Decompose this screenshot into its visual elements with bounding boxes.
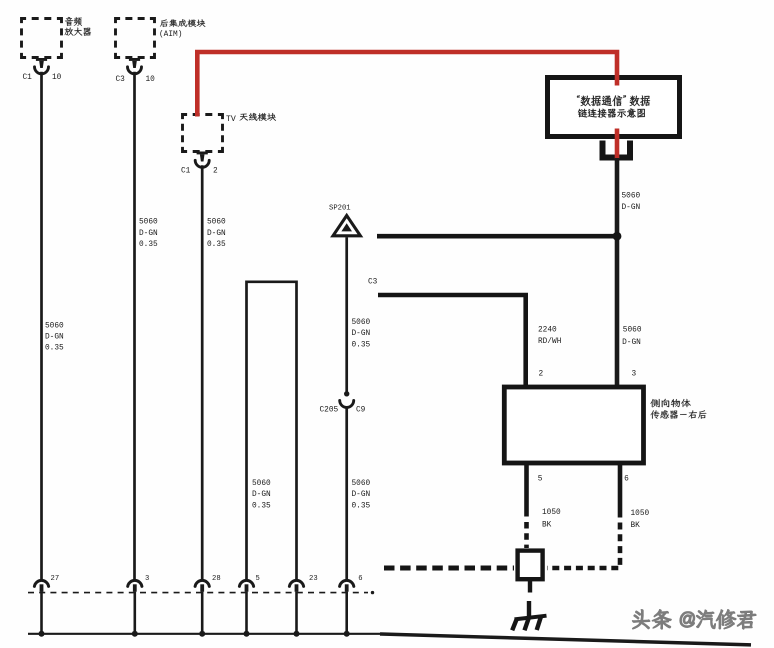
sensor pin 5 wire (524, 463, 529, 517)
svg-text:5060: 5060 (252, 480, 271, 488)
svg-text:BK: BK (542, 521, 552, 529)
wire label 5060 D-GN (below DLC) (622, 193, 641, 213)
svg-text:6: 6 (358, 575, 362, 583)
dashed wire pin 6 to splice block (547, 523, 620, 569)
stub from splice block to ground lead (528, 579, 532, 593)
svg-text:SP201: SP201 (329, 205, 351, 213)
svg-text:TV: TV (226, 115, 236, 124)
wire label 5060 D-GN (above pin 3) (622, 326, 642, 347)
wire label 5060 D-GN 0.35 (TV antenna wire) (207, 219, 226, 249)
svg-text:3: 3 (145, 575, 149, 583)
red wire segment through DLC bottom connector (615, 129, 620, 160)
bottom connector pin 6 (340, 575, 363, 592)
svg-text:D-GN: D-GN (352, 491, 371, 499)
TV antenna module label (226, 113, 276, 124)
wire from SP201 to C205 (345, 237, 348, 392)
svg-text:D-GN: D-GN (252, 491, 271, 499)
svg-text:2: 2 (213, 168, 218, 176)
svg-text:0.35: 0.35 (45, 345, 64, 353)
wire 5060 D-GN from audio amplifier C1-10 (40, 72, 43, 579)
bottom bus rail (28, 633, 380, 635)
splice SP201 symbol (333, 216, 360, 236)
C3 branch label (368, 279, 378, 287)
svg-text:BK: BK (631, 522, 641, 530)
splice block S-connector (518, 551, 543, 580)
pin 3 label (632, 371, 637, 379)
svg-text:RD/WH: RD/WH (538, 338, 562, 346)
svg-text:27: 27 (51, 575, 60, 583)
svg-text:C1: C1 (23, 74, 33, 82)
slanted page edge line (380, 634, 751, 645)
wire below pin 23 (294, 592, 300, 637)
svg-text:10: 10 (146, 76, 156, 84)
svg-text:D-GN: D-GN (622, 204, 641, 212)
svg-text:28: 28 (212, 575, 221, 583)
svg-text:C9: C9 (356, 407, 366, 415)
pin 6 label (624, 476, 629, 484)
red data wire from TV antenna module to DLC box (197, 52, 617, 117)
heavy branch wire to junction (377, 234, 617, 239)
svg-text:(AIM): (AIM) (159, 31, 182, 39)
svg-text:10: 10 (52, 74, 62, 82)
watermark (633, 610, 758, 631)
sensor label (650, 399, 706, 419)
bottom connector pin 3 (128, 575, 150, 592)
bottom connector pin 27 (34, 575, 59, 592)
wire label 5060 D-GN 0.35 (audio amp wire) (45, 322, 64, 352)
svg-text:6: 6 (624, 476, 629, 484)
bottom connector pin 23 (289, 575, 317, 592)
svg-text:5: 5 (256, 575, 260, 583)
AIM label (159, 19, 205, 39)
svg-text:2240: 2240 (538, 326, 557, 334)
svg-text:5060: 5060 (352, 480, 371, 488)
wire label 5060 D-GN 0.35 (AIM wire) (139, 219, 158, 249)
svg-text:3: 3 (632, 371, 637, 379)
looped wire between pins 5 and 23 (247, 282, 297, 579)
svg-text:0.35: 0.35 (207, 241, 226, 249)
TV antenna module dashed box (183, 115, 223, 152)
sensor pin 6 wire (618, 463, 623, 518)
audio amplifier dashed box (22, 19, 62, 58)
svg-text:D-GN: D-GN (45, 334, 64, 342)
heavy dashed wire entering from left (384, 566, 514, 571)
in-line connector C205-C9 (320, 391, 366, 414)
svg-text:5060: 5060 (139, 219, 158, 227)
rear integration module (AIM) dashed box (116, 19, 155, 58)
svg-text:0.35: 0.35 (352, 341, 371, 349)
connector C1-10 of audio amplifier (23, 58, 62, 82)
chassis ground symbol (512, 601, 546, 630)
svg-text:5: 5 (538, 476, 543, 484)
svg-text:2: 2 (539, 371, 544, 379)
heavy wire from DLC to sensor pin 3 (615, 158, 620, 387)
pin 5 label (538, 476, 543, 484)
svg-text:5060: 5060 (45, 322, 64, 330)
connector C1-2 of TV antenna module (181, 152, 218, 176)
wire 5060 D-GN from AIM C3-10 (133, 72, 136, 579)
svg-text:1050: 1050 (631, 510, 650, 518)
wire label 5060 D-GN 0.35 (below C205) (352, 480, 371, 510)
wire below pin 6 (344, 592, 350, 637)
svg-text:C3: C3 (368, 279, 378, 287)
side object sensor right-rear box (504, 387, 643, 463)
wire label 1050 BK (pin 6) (631, 510, 650, 530)
thin dashed harness line (28, 591, 374, 594)
svg-text:D-GN: D-GN (207, 230, 226, 238)
DLC box label (577, 95, 650, 117)
svg-text:5060: 5060 (622, 193, 641, 201)
svg-text:0.35: 0.35 (252, 502, 271, 510)
svg-text:C205: C205 (320, 407, 339, 415)
wire label 5060 D-GN 0.35 (above C205) (352, 319, 371, 349)
svg-text:23: 23 (309, 575, 318, 583)
wire 5060 D-GN from TV antenna module C1-2 (201, 165, 204, 579)
bottom connector pin 5 (239, 575, 259, 592)
svg-text:D-GN: D-GN (352, 330, 371, 338)
audio amplifier label (65, 17, 91, 36)
U-bracket connector below DLC box (603, 141, 631, 158)
wire below pin 27 (39, 592, 45, 637)
svg-text:0.35: 0.35 (139, 241, 158, 249)
heavy wire C3 branch to sensor pin 2 (378, 295, 526, 387)
svg-text:5060: 5060 (623, 326, 642, 334)
bottom connector pin 28 (195, 575, 221, 592)
svg-text:5060: 5060 (352, 319, 371, 327)
wire label 1050 BK (pin 5) (542, 509, 561, 529)
wire below pin 3 (132, 592, 138, 637)
svg-text:D-GN: D-GN (139, 230, 158, 238)
svg-text:1050: 1050 (542, 509, 561, 517)
data link connector diagram box (DLC) (548, 78, 680, 137)
dashed wire pin 5 to splice block (524, 522, 529, 548)
wire below pin 28 (199, 592, 205, 637)
wire below pin 5 (244, 592, 250, 637)
svg-text:C1: C1 (181, 168, 191, 176)
pin 2 label (539, 371, 544, 379)
connector C3-10 of AIM (116, 58, 156, 84)
svg-text:0.35: 0.35 (352, 502, 371, 510)
junction node on DLC wire (613, 232, 622, 241)
svg-text:C3: C3 (116, 76, 126, 84)
SP201 label (329, 205, 351, 213)
wire label 2240 RD/WH (538, 326, 562, 346)
svg-text:5060: 5060 (207, 219, 226, 227)
svg-text:D-GN: D-GN (622, 339, 641, 347)
wire label 5060 D-GN 0.35 (loop wire) (252, 480, 271, 510)
wire from C205 to pin 6 (345, 408, 348, 579)
